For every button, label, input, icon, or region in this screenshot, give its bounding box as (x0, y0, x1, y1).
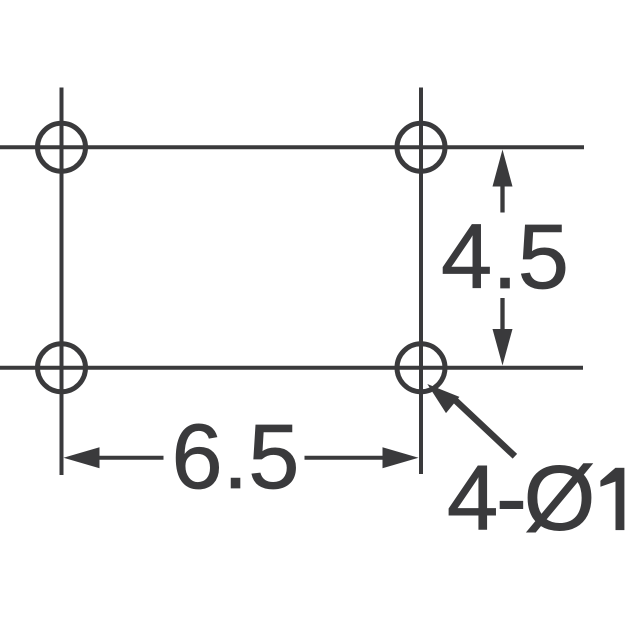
svg-text:4-Ø: 4-Ø (447, 448, 595, 550)
svg-text:6.5: 6.5 (172, 406, 300, 508)
svg-text:4.5: 4.5 (441, 206, 569, 308)
